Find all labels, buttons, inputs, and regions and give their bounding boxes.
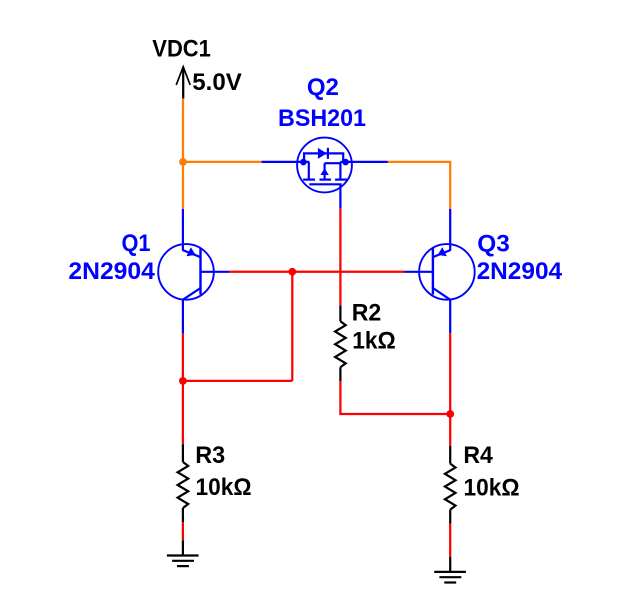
svg-text:2N2904: 2N2904 <box>68 258 155 285</box>
resistor R3 <box>178 444 189 522</box>
wire Q1 base to Q3 base (red horizontal) <box>229 271 404 273</box>
value 10k ohm (R4) <box>464 475 520 502</box>
svg-text:R3: R3 <box>195 442 225 469</box>
label R2 <box>352 299 382 326</box>
value BSH201 <box>278 105 366 132</box>
svg-text:Q2: Q2 <box>307 74 339 101</box>
node base junction <box>288 268 296 276</box>
ground under R3 <box>167 540 199 566</box>
transistor Q1 2N2904 PNP <box>158 209 229 334</box>
wire VDC1 to rail (orange vertical) <box>182 98 184 209</box>
wire rail to Q2 drain (orange horizontal) <box>183 161 262 163</box>
svg-text:10kΩ: 10kΩ <box>196 474 252 501</box>
label R4 <box>463 442 493 469</box>
svg-text:BSH201: BSH201 <box>278 105 366 132</box>
label VDC1 <box>152 36 211 63</box>
wire junction to R4 (red vertical) <box>449 414 451 446</box>
node Q1 collector junction <box>179 377 187 385</box>
svg-text:1kΩ: 1kΩ <box>352 328 396 355</box>
svg-text:10kΩ: 10kΩ <box>464 475 520 502</box>
value 1k ohm <box>352 328 396 355</box>
wire R3 to ground (red) <box>182 522 184 540</box>
resistor R4 <box>445 446 456 524</box>
svg-text:Q1: Q1 <box>122 230 151 257</box>
wire Q3 collector down (red vertical) <box>449 333 451 414</box>
svg-text:Q3: Q3 <box>477 230 510 257</box>
label Q1 <box>122 230 151 257</box>
transistor Q3 2N2904 PNP <box>405 209 475 333</box>
wire base junction down (red vertical) <box>291 272 293 381</box>
svg-text:R2: R2 <box>352 299 382 326</box>
power source VDC1 arrow <box>176 67 190 99</box>
value 2N2904 (Q3) <box>477 258 563 285</box>
node rail junction (orange) <box>179 158 187 166</box>
label R3 <box>195 442 225 469</box>
wire R2 bottom to Q3 collector node (red) <box>340 381 450 414</box>
node Q3 collector junction <box>446 410 454 418</box>
svg-text:VDC1: VDC1 <box>152 36 211 63</box>
wire Q2 gate to R2 (red vertical) <box>339 209 341 306</box>
value 10k ohm (R3) <box>196 474 252 501</box>
svg-text:2N2904: 2N2904 <box>477 258 563 285</box>
resistor R2 <box>335 305 346 381</box>
transistor Q2 MOSFET BSH201 <box>262 138 388 209</box>
ground under R4 <box>434 557 466 583</box>
label Q2 <box>307 74 339 101</box>
label Q3 <box>477 230 510 257</box>
svg-text:5.0V: 5.0V <box>192 69 242 96</box>
value 2N2904 (Q1) <box>68 258 155 285</box>
svg-text:R4: R4 <box>463 442 493 469</box>
wire Q2 source to right rail (orange) <box>388 162 450 209</box>
wire Q1 collector to R3 (red vertical) <box>182 334 184 445</box>
wire R4 to ground (red) <box>449 524 451 557</box>
value 5.0V <box>192 69 242 96</box>
wire to Q1 collector node (red horizontal) <box>183 380 292 382</box>
